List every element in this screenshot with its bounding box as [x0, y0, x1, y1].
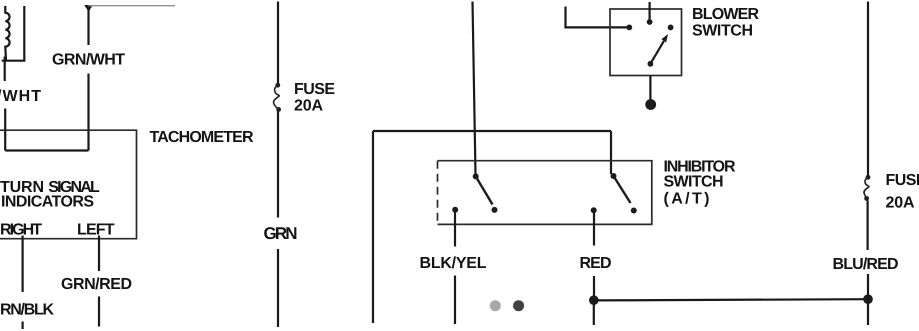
- svg-text:BLU/RED: BLU/RED: [833, 256, 899, 273]
- left switch contact node: [452, 207, 458, 213]
- wire faint top: [89, 5, 176, 7]
- wire blower feed: [566, 7, 628, 28]
- wire GRN upper: [277, 2, 279, 85]
- wire below RED junction: [593, 300, 595, 325]
- wire BLU/RED middle: [866, 201, 868, 251]
- left switch pivot node: [473, 173, 479, 179]
- svg-text:FUSE: FUSE: [886, 172, 919, 189]
- svg-text:(A/T): (A/T): [664, 191, 710, 208]
- svg-text:RED: RED: [580, 255, 612, 272]
- right switch pivot node: [611, 173, 617, 179]
- right switch lever: [614, 176, 631, 203]
- wire /WHT stub: [4, 57, 6, 82]
- blower switch box: [610, 9, 682, 76]
- coil L1 (ignition coil, partial): [5, 6, 9, 61]
- svg-text:20A: 20A: [886, 194, 915, 211]
- wire GRN middle: [277, 111, 279, 218]
- wire GRN lower: [277, 249, 279, 327]
- wire RED lower: [593, 276, 595, 299]
- wire LEFT indicator lower: [98, 297, 100, 327]
- svg-text:GRN/WHT: GRN/WHT: [52, 51, 125, 68]
- svg-text:LEFT: LEFT: [77, 221, 115, 238]
- wire BLK/YEL upper: [454, 212, 456, 247]
- wire /WHT to tachometer: [4, 109, 6, 151]
- page indicator dot 2: [513, 300, 524, 311]
- blower right terminal: [668, 25, 674, 31]
- wire below BLU/RED junction: [867, 299, 869, 325]
- connector node (blower output): [645, 99, 656, 110]
- wire RIGHT indicator lower: [22, 322, 24, 330]
- svg-text:TACHOMETER: TACHOMETER: [150, 129, 254, 146]
- wire RED upper: [593, 212, 595, 246]
- svg-text:/WHT: /WHT: [0, 88, 41, 105]
- tachometer box: [0, 130, 137, 239]
- svg-text:GRN/RED: GRN/RED: [61, 276, 132, 293]
- wire tachometer internal bus: [5, 149, 88, 151]
- wire GRN/WHT upper: [87, 8, 89, 45]
- wire BLK/YEL lower: [454, 276, 456, 325]
- node GRN/WHT arrow: [84, 5, 93, 12]
- wire RIGHT indicator upper: [22, 236, 24, 293]
- wire BLU/RED upper: [867, 2, 869, 177]
- wire coil secondary: [23, 6, 25, 61]
- fuse F2 20A: [864, 175, 870, 201]
- left switch lever: [476, 176, 493, 204]
- svg-text:SWITCH: SWITCH: [664, 174, 724, 191]
- wire ignition feed vertical: [473, 2, 476, 175]
- wire BLU/RED lower: [867, 274, 869, 299]
- svg-text:FUSE: FUSE: [294, 81, 335, 98]
- blower top terminal: [647, 19, 653, 25]
- svg-text:RN/BLK: RN/BLK: [0, 302, 54, 319]
- left switch lever tip node: [492, 207, 498, 213]
- junction node RED / bottom bus: [589, 295, 599, 305]
- svg-text:SWITCH: SWITCH: [692, 22, 753, 39]
- wire bottom bus: [594, 299, 868, 300]
- svg-text:BLOWER: BLOWER: [692, 6, 759, 23]
- inhibitor switch box: [438, 161, 652, 225]
- wire junction bus: [2, 60, 26, 62]
- wire GRN/WHT lower: [87, 74, 89, 151]
- wire LEFT indicator upper: [98, 236, 100, 272]
- blower left terminal: [626, 25, 632, 31]
- junction node BLU/RED / bottom bus: [863, 294, 873, 304]
- svg-text:GRN: GRN: [264, 224, 298, 243]
- right switch contact node: [591, 207, 597, 213]
- wire inhibitor feed top: [373, 130, 611, 132]
- wire blower to connector: [649, 76, 651, 101]
- svg-text:RIGHT: RIGHT: [0, 221, 42, 238]
- wire inhibitor right drop: [610, 131, 612, 174]
- svg-text:BLK/YEL: BLK/YEL: [420, 255, 487, 272]
- svg-text:INDICATORS: INDICATORS: [1, 194, 94, 211]
- page indicator dot 1: [490, 300, 501, 311]
- blower pivot node: [648, 61, 654, 67]
- fuse F1 20A: [274, 83, 281, 112]
- svg-text:20A: 20A: [294, 98, 323, 115]
- wire inhibitor feed left drop: [372, 131, 374, 323]
- blower lever with arrow: [650, 34, 668, 64]
- right switch lever tip node: [631, 208, 637, 214]
- wire blower top feed: [648, 2, 650, 20]
